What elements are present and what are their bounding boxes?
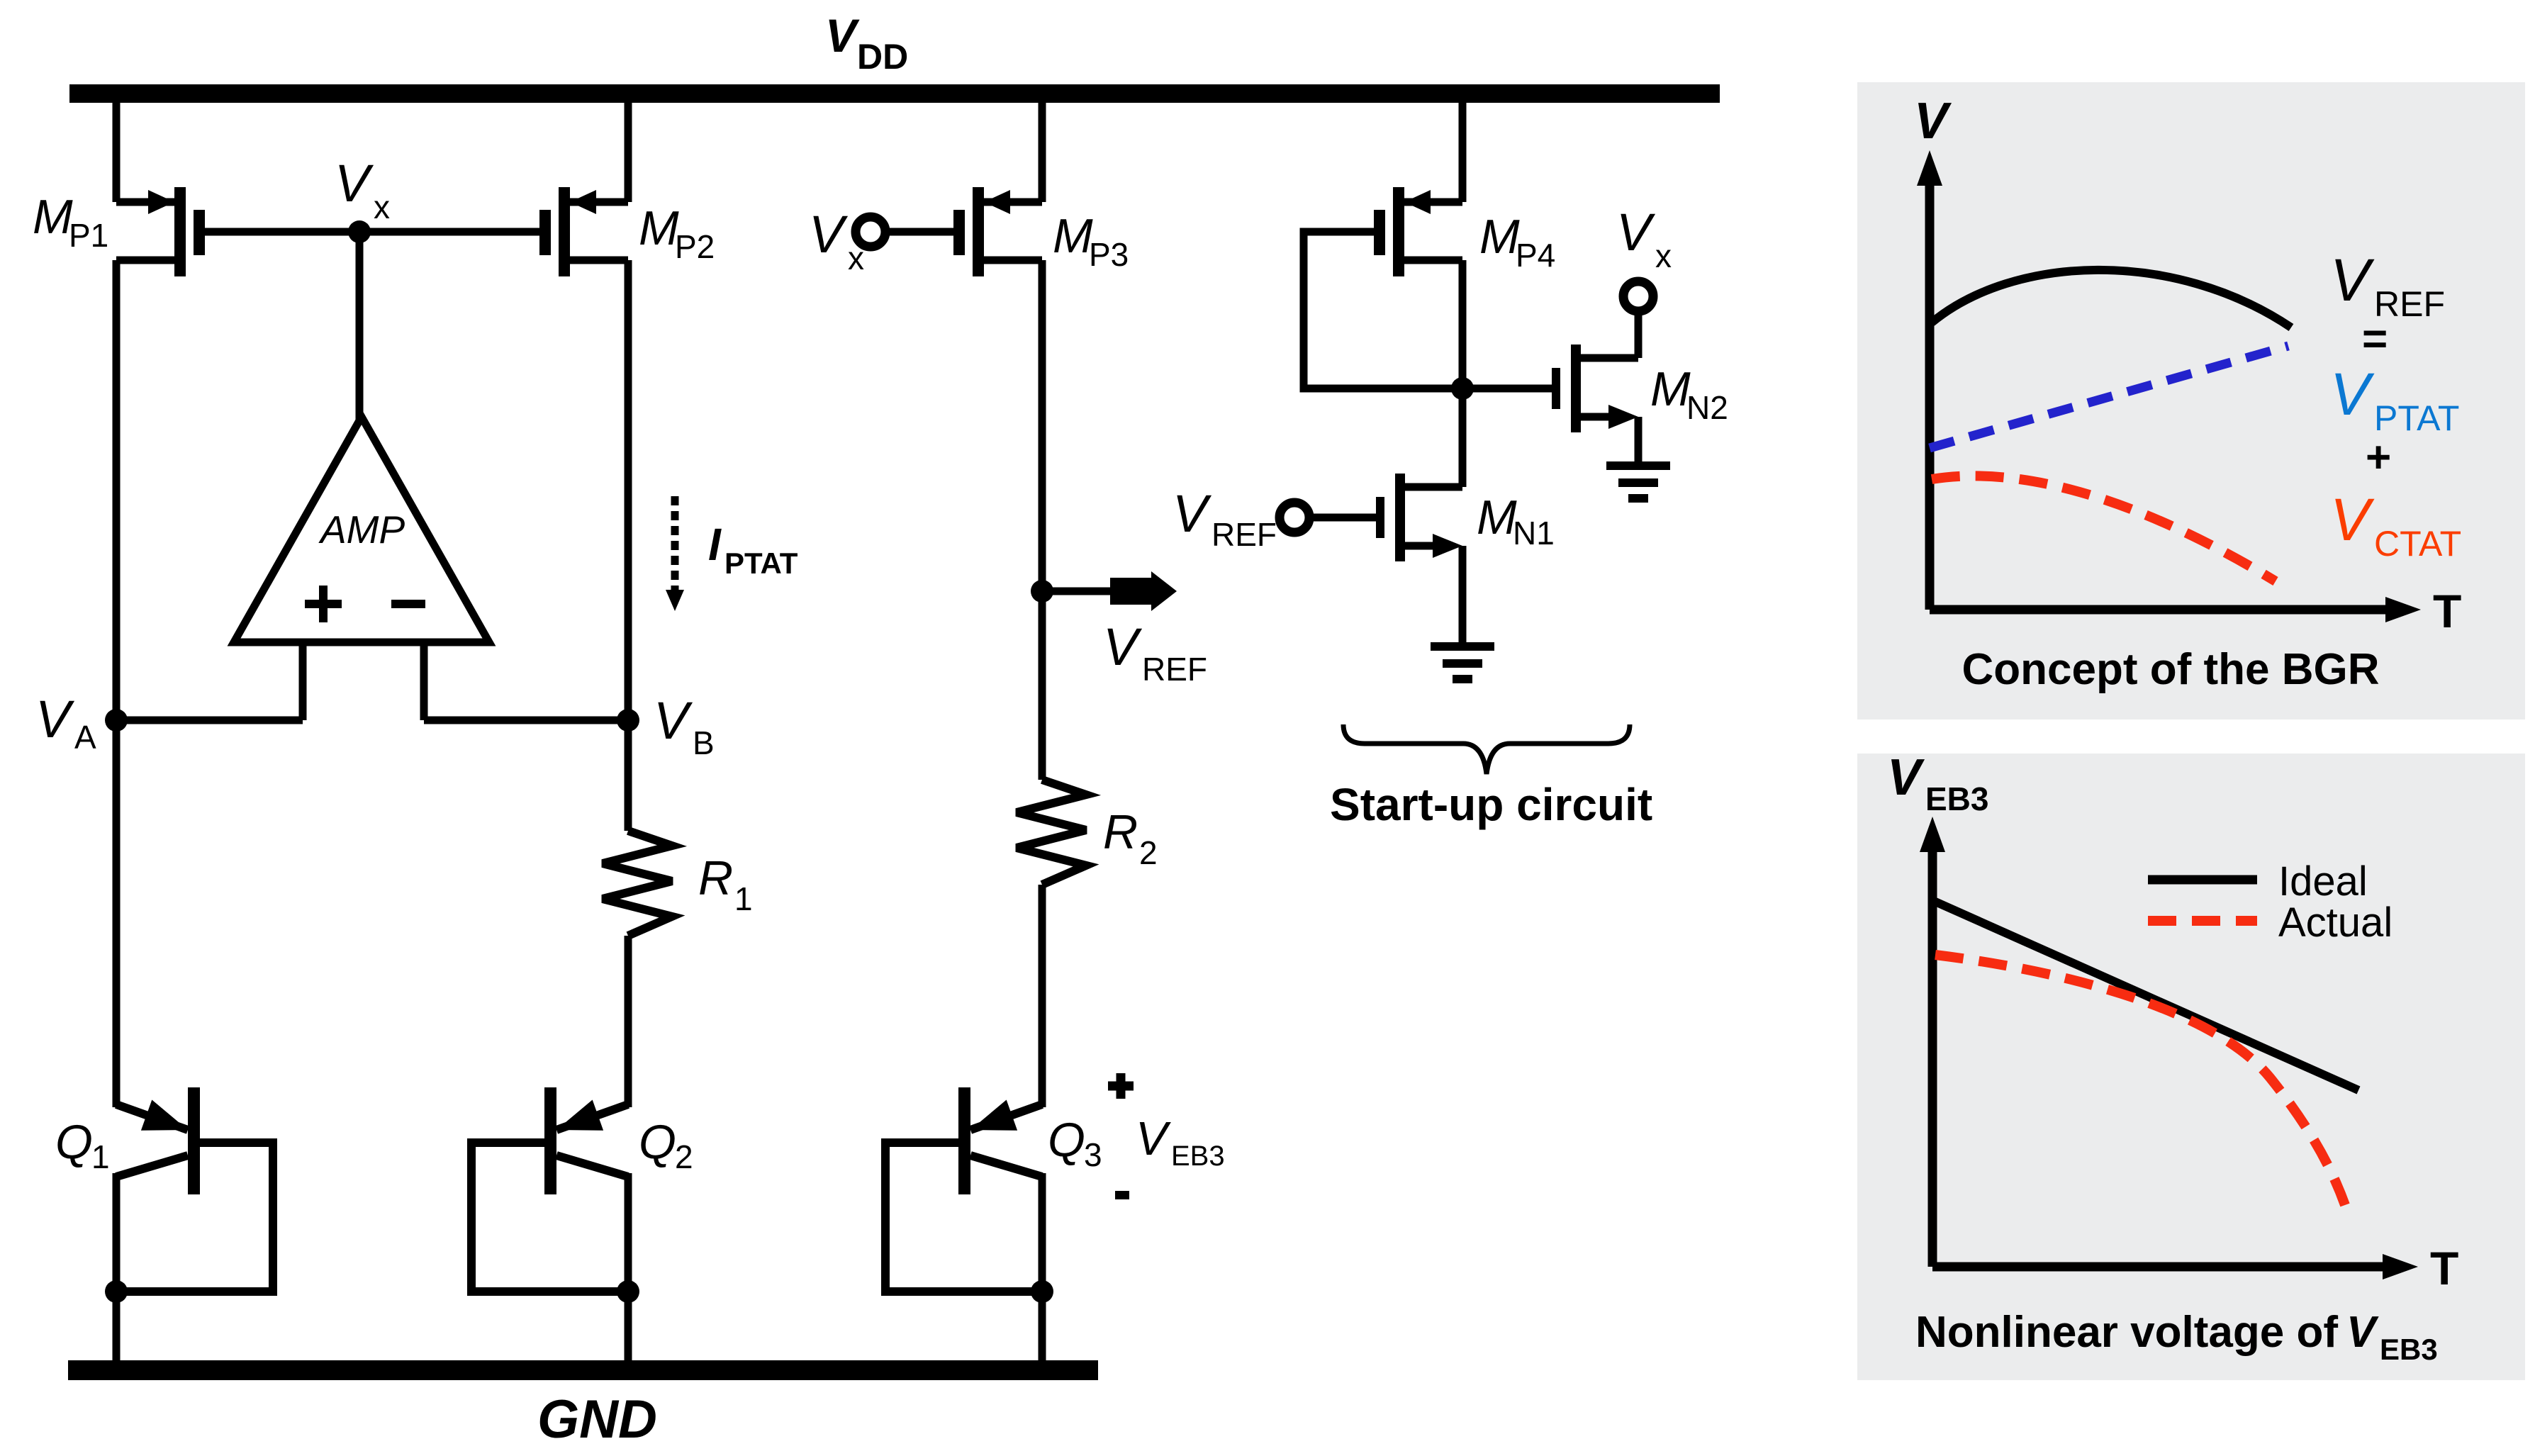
svg-text:1: 1 — [734, 880, 753, 917]
svg-text:Concept of the BGR: Concept of the BGR — [1962, 645, 2380, 694]
svg-text:GND: GND — [537, 1389, 657, 1450]
svg-text:Q: Q — [639, 1115, 676, 1169]
svg-text:V: V — [335, 154, 374, 213]
svg-text:T: T — [2430, 1242, 2458, 1294]
svg-text:2: 2 — [1139, 834, 1158, 871]
svg-text:V: V — [2346, 1308, 2379, 1357]
svg-text:T: T — [2433, 585, 2461, 637]
svg-text:P2: P2 — [675, 228, 715, 265]
svg-text:Q: Q — [55, 1115, 93, 1169]
svg-text:M: M — [1650, 362, 1691, 416]
svg-text:M: M — [1053, 209, 1093, 263]
svg-text:Q: Q — [1048, 1113, 1085, 1167]
svg-text:P1: P1 — [69, 217, 108, 254]
svg-text:B: B — [693, 724, 715, 761]
svg-text:V: V — [1887, 749, 1925, 806]
svg-text:x: x — [848, 240, 864, 276]
svg-text:Nonlinear voltage of: Nonlinear voltage of — [1915, 1308, 2338, 1357]
svg-text:Start-up circuit: Start-up circuit — [1330, 779, 1652, 830]
svg-text:M: M — [33, 190, 73, 244]
svg-text:x: x — [1655, 237, 1672, 274]
svg-text:2: 2 — [675, 1138, 693, 1175]
svg-text:3: 3 — [1084, 1136, 1102, 1173]
svg-text:V: V — [654, 691, 693, 750]
svg-text:EB3: EB3 — [2380, 1333, 2438, 1366]
svg-text:M: M — [1479, 210, 1520, 264]
svg-text:M: M — [639, 201, 679, 255]
svg-text:I: I — [708, 519, 722, 570]
svg-text:N2: N2 — [1686, 389, 1728, 426]
svg-text:V: V — [2330, 247, 2375, 313]
svg-text:REF: REF — [1211, 516, 1277, 553]
svg-text:R: R — [1103, 805, 1138, 859]
svg-text:V: V — [2330, 486, 2375, 553]
svg-text:AMP: AMP — [318, 508, 405, 551]
svg-text:A: A — [74, 719, 96, 756]
svg-text:V: V — [1616, 203, 1656, 262]
svg-text:EB3: EB3 — [1171, 1141, 1225, 1172]
svg-text:DD: DD — [857, 37, 908, 77]
svg-text:REF: REF — [1142, 651, 1207, 688]
svg-text:=: = — [2362, 315, 2388, 364]
svg-text:Ideal: Ideal — [2278, 858, 2368, 905]
svg-text:CTAT: CTAT — [2374, 524, 2461, 564]
svg-text:V: V — [1173, 484, 1212, 543]
svg-text:1: 1 — [91, 1138, 110, 1175]
svg-text:N1: N1 — [1513, 515, 1555, 551]
svg-text:V: V — [825, 9, 860, 62]
svg-text:V: V — [809, 205, 849, 264]
svg-text:Actual: Actual — [2278, 900, 2393, 946]
svg-text:V: V — [1103, 617, 1143, 676]
svg-text:V: V — [1136, 1112, 1171, 1165]
svg-text:P3: P3 — [1089, 236, 1129, 273]
svg-text:V: V — [1914, 93, 1952, 150]
svg-text:+: + — [2366, 433, 2391, 482]
svg-text:PTAT: PTAT — [724, 547, 798, 580]
svg-text:PTAT: PTAT — [2374, 398, 2459, 438]
svg-text:R: R — [698, 851, 733, 905]
svg-text:V: V — [2330, 361, 2375, 427]
svg-text:EB3: EB3 — [1925, 780, 1988, 817]
svg-text:V: V — [35, 690, 75, 749]
svg-text:x: x — [374, 189, 390, 225]
svg-text:M: M — [1477, 491, 1517, 544]
svg-text:P4: P4 — [1516, 237, 1555, 274]
